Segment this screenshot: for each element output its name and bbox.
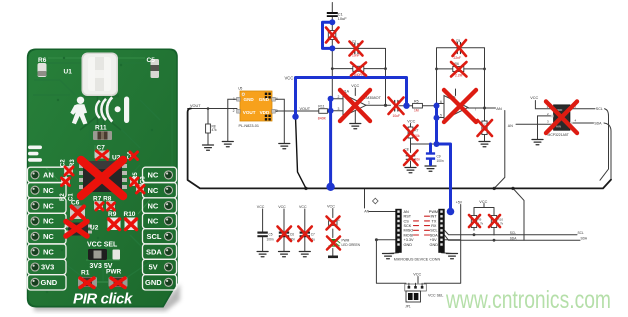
svg-text:R6: R6 — [38, 57, 47, 64]
svg-text:JP1: JP1 — [405, 305, 411, 309]
svg-text:SDA: SDA — [510, 236, 517, 240]
svg-text:47k: 47k — [212, 128, 218, 132]
svg-text:SDA: SDA — [581, 236, 588, 240]
svg-text:840K: 840K — [318, 117, 327, 121]
svg-text:GND: GND — [41, 278, 58, 287]
svg-text:MCP3221A5T: MCP3221A5T — [548, 133, 569, 137]
svg-text:GND: GND — [259, 97, 270, 102]
svg-text:5V: 5V — [149, 263, 158, 272]
svg-text:10uF: 10uF — [393, 114, 401, 118]
svg-text:AN: AN — [364, 210, 369, 214]
svg-text:SCK: SCK — [404, 224, 412, 228]
svg-text:AN: AN — [404, 210, 410, 214]
svg-text:RX: RX — [431, 224, 437, 228]
svg-text:SCL: SCL — [510, 231, 516, 235]
svg-text:VCC: VCC — [351, 84, 359, 88]
svg-text:R1: R1 — [81, 270, 90, 277]
svg-text:MOSI: MOSI — [404, 233, 414, 237]
svg-text:+3.3V: +3.3V — [404, 238, 414, 242]
svg-text:2: 2 — [338, 95, 340, 99]
svg-text:2: 2 — [233, 109, 235, 113]
svg-text:1M: 1M — [414, 109, 419, 113]
svg-text:3V3: 3V3 — [41, 263, 54, 272]
svg-text:VOUT: VOUT — [190, 104, 201, 108]
svg-text:SDA: SDA — [430, 233, 438, 237]
svg-text:NC: NC — [43, 217, 54, 226]
svg-text:VCC: VCC — [285, 75, 294, 80]
svg-text:NC: NC — [43, 232, 54, 241]
svg-text:LED GREEN: LED GREEN — [342, 243, 361, 247]
svg-text:SCL: SCL — [578, 231, 584, 235]
svg-text:www.cntronics.com: www.cntronics.com — [445, 286, 611, 314]
svg-text:10nF: 10nF — [352, 54, 360, 58]
svg-text:VCC: VCC — [479, 200, 487, 204]
svg-text:TX: TX — [432, 219, 437, 223]
svg-text:PL-N823-01: PL-N823-01 — [239, 124, 259, 128]
svg-text:GND: GND — [244, 97, 255, 102]
svg-text:+5V: +5V — [456, 200, 463, 204]
svg-text:PWM: PWM — [342, 239, 350, 243]
svg-text:C5: C5 — [269, 233, 273, 237]
svg-text:MISO: MISO — [404, 229, 414, 233]
svg-text:4: 4 — [276, 97, 278, 101]
svg-text:AN: AN — [43, 171, 54, 180]
svg-text:2.2M: 2.2M — [455, 74, 463, 78]
svg-text:R11: R11 — [318, 105, 324, 109]
svg-text:R7 R8: R7 R8 — [93, 196, 112, 203]
svg-text:1: 1 — [368, 100, 370, 104]
svg-text:VCC SEL: VCC SEL — [428, 293, 443, 297]
svg-text:NC: NC — [43, 201, 54, 210]
svg-text:VOUT: VOUT — [243, 110, 256, 115]
svg-text:VOUT: VOUT — [300, 107, 311, 111]
svg-text:LM358OT: LM358OT — [364, 96, 382, 100]
svg-text:U1: U1 — [64, 69, 73, 76]
svg-text:3: 3 — [338, 107, 340, 111]
svg-text:NC: NC — [43, 247, 54, 256]
svg-text:C9: C9 — [437, 154, 441, 158]
svg-text:CS: CS — [404, 219, 410, 223]
svg-text:U5: U5 — [238, 87, 242, 91]
svg-text:AN: AN — [508, 124, 513, 128]
svg-text:100n: 100n — [437, 159, 444, 163]
svg-text:R9: R9 — [108, 211, 117, 218]
svg-text:SCL: SCL — [147, 232, 162, 241]
svg-text:NC: NC — [43, 186, 54, 195]
svg-text:NC: NC — [148, 171, 159, 180]
svg-text:NC: NC — [148, 201, 159, 210]
svg-text:VCC: VCC — [299, 205, 307, 209]
svg-text:NC: NC — [148, 217, 159, 226]
svg-text:10uF: 10uF — [338, 16, 348, 21]
svg-text:GND: GND — [404, 243, 413, 247]
svg-text:6: 6 — [440, 100, 442, 104]
svg-text:1: 1 — [233, 97, 235, 101]
svg-text:VCC: VCC — [278, 205, 286, 209]
svg-text:NC: NC — [148, 186, 159, 195]
svg-text:SCL: SCL — [430, 229, 437, 233]
svg-text:VCC: VCC — [327, 204, 335, 208]
svg-text:VDD: VDD — [260, 110, 270, 115]
svg-text:R11: R11 — [95, 125, 107, 132]
svg-text:INT: INT — [431, 215, 438, 219]
svg-text:5: 5 — [440, 114, 442, 118]
svg-text:3: 3 — [276, 109, 278, 113]
svg-text:+5V: +5V — [430, 238, 437, 242]
svg-text:PWR: PWR — [106, 269, 121, 276]
svg-text:PWM: PWM — [429, 210, 438, 214]
svg-text:VCC: VCC — [530, 96, 538, 100]
svg-text:SDA: SDA — [594, 122, 602, 126]
svg-text:C7: C7 — [311, 233, 315, 237]
svg-text:MIKROBUS DEVICE CONN: MIKROBUS DEVICE CONN — [394, 258, 441, 262]
svg-text:AN: AN — [496, 106, 502, 111]
svg-text:SCL: SCL — [596, 107, 603, 111]
svg-text:R10: R10 — [124, 211, 136, 218]
svg-text:SDA: SDA — [146, 247, 162, 256]
svg-text:VCC: VCC — [413, 272, 421, 276]
svg-text:22nF: 22nF — [454, 56, 462, 60]
svg-text:U2: U2 — [90, 225, 99, 232]
svg-text:7: 7 — [475, 107, 477, 111]
svg-text:VCC: VCC — [257, 205, 265, 209]
svg-text:GND: GND — [145, 278, 162, 287]
svg-text:PIR click: PIR click — [73, 291, 133, 308]
svg-text:GND: GND — [430, 243, 439, 247]
svg-text:100n: 100n — [267, 238, 274, 242]
svg-text:R5: R5 — [414, 100, 419, 104]
svg-text:VCC: VCC — [407, 119, 415, 123]
svg-text:RST: RST — [404, 215, 412, 219]
svg-text:VCC SEL: VCC SEL — [87, 242, 118, 249]
svg-text:C5: C5 — [147, 57, 156, 64]
svg-text:C5: C5 — [456, 39, 460, 43]
svg-text:C6: C6 — [290, 233, 294, 237]
